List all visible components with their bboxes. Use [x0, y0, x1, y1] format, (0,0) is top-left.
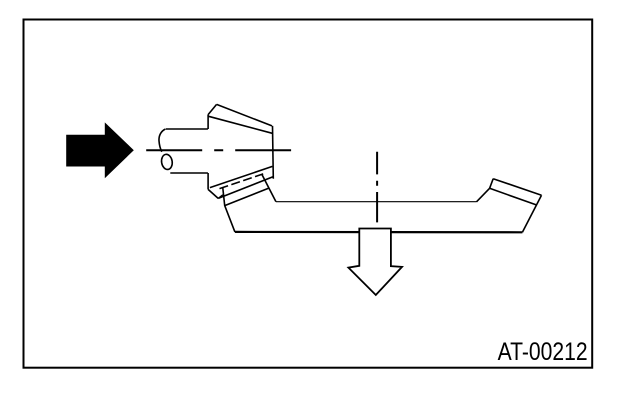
paddle top band lower edge [490, 188, 537, 205]
cone bottom-left chamfer [208, 189, 218, 198]
cone right edge [272, 126, 275, 179]
paddle top band upper edge [493, 179, 541, 196]
collar hidden dashed line [220, 174, 264, 189]
white down arrow [348, 229, 402, 296]
border frame [24, 20, 593, 368]
svg-text:AT-00212: AT-00212 [498, 338, 588, 366]
arm top edge [276, 201, 477, 203]
cone bottom silhouette edge [218, 177, 273, 199]
horizontal centerline [146, 149, 291, 151]
collar bottom front edge [225, 188, 269, 205]
paddle right edge [522, 195, 541, 232]
shaft top line [166, 128, 208, 130]
cone left edge lower [207, 173, 209, 189]
cone top band lower edge [208, 116, 272, 133]
cone bottom band upper edge [210, 166, 273, 187]
paddle rise edge [477, 188, 490, 202]
connector chamfer to cap [218, 195, 223, 199]
shaft end break ellipse [160, 154, 173, 171]
paddle left cap [490, 179, 494, 189]
cone top-left peak edge [208, 104, 217, 114]
arm bottom edge [235, 231, 523, 234]
figure code label AT-00212 [498, 338, 588, 366]
collar left cap and arm left edge [223, 188, 235, 232]
collar right cap edge [262, 174, 276, 201]
shaft bottom line [170, 172, 208, 174]
shaft end break arc [159, 129, 166, 152]
cone left edge upper [207, 115, 209, 129]
black direction arrow [66, 122, 134, 178]
vertical centerline [376, 152, 378, 223]
cone top band upper edge [217, 104, 272, 126]
